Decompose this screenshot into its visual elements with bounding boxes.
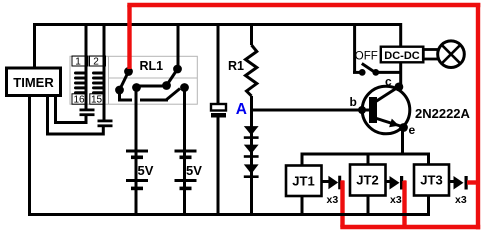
svg-text:JT3: JT3 — [420, 173, 442, 188]
svg-text:JT2: JT2 — [356, 173, 378, 188]
svg-text:15: 15 — [91, 95, 103, 106]
svg-text:R1: R1 — [228, 59, 244, 73]
svg-text:A: A — [236, 101, 247, 118]
svg-text:e: e — [409, 123, 416, 137]
svg-text:5V: 5V — [186, 163, 202, 178]
svg-text:x3: x3 — [455, 194, 467, 206]
svg-text:x3: x3 — [327, 194, 339, 206]
svg-text:c: c — [385, 75, 392, 89]
svg-text:TIMER: TIMER — [13, 75, 54, 90]
svg-text:OFF: OFF — [355, 51, 378, 63]
svg-text:b: b — [350, 95, 357, 109]
svg-text:16: 16 — [73, 95, 85, 106]
svg-text:5V: 5V — [138, 163, 154, 178]
svg-text:DC-DC: DC-DC — [384, 50, 419, 62]
svg-text:1: 1 — [75, 57, 81, 68]
svg-text:JT1: JT1 — [292, 174, 314, 189]
svg-text:x3: x3 — [390, 194, 402, 206]
svg-text:2N2222A: 2N2222A — [415, 106, 471, 121]
svg-text:RL1: RL1 — [140, 59, 164, 73]
svg-text:2: 2 — [93, 57, 99, 68]
